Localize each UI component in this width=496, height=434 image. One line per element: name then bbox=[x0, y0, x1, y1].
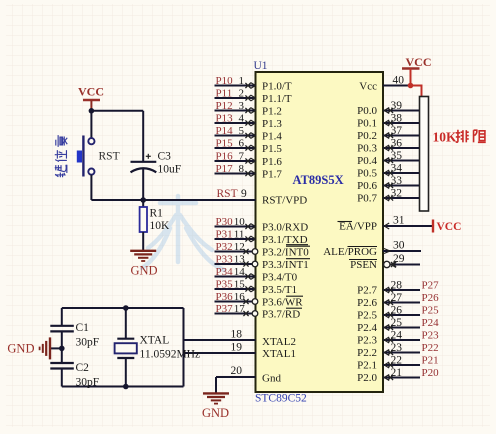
svg-text:P0.6: P0.6 bbox=[357, 180, 377, 192]
svg-text:30pF: 30pF bbox=[76, 337, 100, 349]
svg-text:P1.5: P1.5 bbox=[262, 143, 282, 155]
svg-text:P3.2/INT0: P3.2/INT0 bbox=[262, 247, 309, 259]
svg-text:XTAL: XTAL bbox=[140, 335, 170, 347]
svg-text:3: 3 bbox=[239, 100, 245, 112]
svg-text:P1.7: P1.7 bbox=[262, 169, 282, 181]
svg-text:11.0592MHz: 11.0592MHz bbox=[140, 349, 201, 361]
svg-text:P10: P10 bbox=[216, 75, 234, 87]
svg-text:P3.0/RXD: P3.0/RXD bbox=[262, 222, 308, 234]
svg-text:P36: P36 bbox=[216, 291, 234, 303]
svg-text:P3.7/RD: P3.7/RD bbox=[262, 309, 300, 321]
svg-text:C2: C2 bbox=[76, 362, 90, 374]
svg-text:30: 30 bbox=[393, 240, 405, 252]
svg-text:P0.0: P0.0 bbox=[357, 105, 377, 117]
svg-text:P2.2: P2.2 bbox=[357, 347, 377, 359]
svg-text:P2.6: P2.6 bbox=[357, 297, 377, 309]
svg-text:P1.4: P1.4 bbox=[262, 131, 282, 143]
svg-text:P0.2: P0.2 bbox=[357, 130, 377, 142]
svg-text:32: 32 bbox=[391, 188, 403, 200]
svg-text:P16: P16 bbox=[216, 151, 234, 163]
svg-text:P3.4/T0: P3.4/T0 bbox=[262, 272, 298, 284]
svg-text:25: 25 bbox=[391, 317, 403, 329]
svg-text:P2.7: P2.7 bbox=[357, 285, 377, 297]
svg-text:5: 5 bbox=[239, 125, 245, 137]
svg-text:22: 22 bbox=[391, 355, 403, 367]
svg-text:1: 1 bbox=[239, 75, 245, 87]
svg-text:40: 40 bbox=[393, 75, 405, 87]
svg-text:P22: P22 bbox=[422, 342, 439, 354]
svg-text:P13: P13 bbox=[216, 113, 234, 125]
svg-text:XTAL1: XTAL1 bbox=[262, 348, 296, 360]
svg-text:P2.0: P2.0 bbox=[357, 372, 377, 384]
svg-text:17: 17 bbox=[234, 303, 246, 315]
svg-text:P11: P11 bbox=[216, 88, 233, 100]
svg-text:P21: P21 bbox=[422, 355, 439, 367]
svg-text:31: 31 bbox=[393, 215, 405, 227]
svg-text:P0.5: P0.5 bbox=[357, 168, 377, 180]
svg-text:P1.6: P1.6 bbox=[262, 156, 282, 168]
svg-text:20: 20 bbox=[231, 365, 243, 377]
svg-text:P1.2: P1.2 bbox=[262, 106, 282, 118]
svg-text:P30: P30 bbox=[216, 216, 234, 228]
svg-text:33: 33 bbox=[391, 175, 403, 187]
svg-text:21: 21 bbox=[391, 367, 403, 379]
svg-text:P20: P20 bbox=[422, 367, 440, 379]
svg-text:VCC: VCC bbox=[78, 85, 104, 99]
svg-text:STC89C52: STC89C52 bbox=[255, 393, 307, 405]
svg-text:GND: GND bbox=[202, 406, 229, 420]
svg-text:10uF: 10uF bbox=[158, 164, 182, 176]
svg-text:7: 7 bbox=[239, 151, 245, 163]
svg-text:RST/VPD: RST/VPD bbox=[262, 195, 307, 207]
svg-text:RST: RST bbox=[99, 151, 120, 163]
svg-text:P14: P14 bbox=[216, 125, 234, 137]
svg-text:P3.3/INT1: P3.3/INT1 bbox=[262, 259, 309, 271]
svg-text:P0.7: P0.7 bbox=[357, 193, 377, 205]
svg-text:P32: P32 bbox=[216, 241, 233, 253]
svg-text:19: 19 bbox=[231, 342, 243, 354]
svg-text:P2.1: P2.1 bbox=[357, 360, 377, 372]
svg-text:C1: C1 bbox=[76, 322, 90, 334]
svg-text:PSEN: PSEN bbox=[350, 259, 377, 271]
svg-text:9: 9 bbox=[241, 188, 247, 200]
svg-text:VCC: VCC bbox=[406, 55, 432, 69]
svg-text:37: 37 bbox=[391, 125, 403, 137]
svg-text:P12: P12 bbox=[216, 100, 233, 112]
svg-text:P1.0/T: P1.0/T bbox=[262, 81, 292, 93]
svg-text:EA/VPP: EA/VPP bbox=[339, 221, 377, 233]
svg-text:P2.5: P2.5 bbox=[357, 310, 377, 322]
svg-text:24: 24 bbox=[391, 330, 403, 342]
svg-text:10K: 10K bbox=[150, 220, 171, 232]
svg-text:27: 27 bbox=[391, 292, 403, 304]
svg-text:RST: RST bbox=[217, 188, 238, 200]
svg-text:P24: P24 bbox=[422, 317, 440, 329]
svg-text:13: 13 bbox=[234, 254, 246, 266]
svg-text:28: 28 bbox=[391, 280, 403, 292]
svg-text:30pF: 30pF bbox=[76, 377, 100, 389]
svg-text:P35: P35 bbox=[216, 279, 234, 291]
svg-text:P2.3: P2.3 bbox=[357, 335, 377, 347]
svg-text:12: 12 bbox=[234, 241, 245, 253]
svg-text:P1.1/T: P1.1/T bbox=[262, 93, 292, 105]
svg-text:16: 16 bbox=[234, 291, 246, 303]
svg-text:P17: P17 bbox=[216, 163, 234, 175]
svg-text:10: 10 bbox=[234, 216, 246, 228]
svg-text:P0.4: P0.4 bbox=[357, 155, 377, 167]
svg-text:C3: C3 bbox=[158, 151, 172, 163]
svg-text:6: 6 bbox=[239, 138, 245, 150]
svg-text:P34: P34 bbox=[216, 266, 234, 278]
svg-text:11: 11 bbox=[234, 229, 245, 241]
svg-text:P3.6/WR: P3.6/WR bbox=[262, 297, 303, 309]
svg-text:XTAL2: XTAL2 bbox=[262, 336, 296, 348]
svg-text:23: 23 bbox=[391, 342, 403, 354]
svg-text:P2.4: P2.4 bbox=[357, 322, 377, 334]
svg-text:ALE/PROG: ALE/PROG bbox=[323, 246, 377, 258]
svg-text:Vcc: Vcc bbox=[359, 81, 377, 93]
svg-text:P0.3: P0.3 bbox=[357, 143, 377, 155]
svg-text:18: 18 bbox=[231, 329, 243, 341]
svg-text:10K: 10K bbox=[433, 130, 458, 145]
svg-text:P37: P37 bbox=[216, 303, 234, 315]
svg-text:P26: P26 bbox=[422, 292, 440, 304]
svg-text:36: 36 bbox=[391, 138, 403, 150]
svg-text:4: 4 bbox=[239, 113, 245, 125]
svg-text:8: 8 bbox=[239, 163, 245, 175]
svg-text:GND: GND bbox=[7, 342, 34, 356]
svg-text:P0.1: P0.1 bbox=[357, 118, 377, 130]
svg-text:VCC: VCC bbox=[437, 221, 462, 233]
svg-text:Gnd: Gnd bbox=[262, 373, 281, 385]
svg-text:P27: P27 bbox=[422, 280, 440, 292]
svg-text:P33: P33 bbox=[216, 254, 234, 266]
svg-text:14: 14 bbox=[234, 266, 246, 278]
svg-text:P23: P23 bbox=[422, 330, 440, 342]
svg-text:AT89S5X: AT89S5X bbox=[293, 173, 344, 187]
svg-text:39: 39 bbox=[391, 100, 403, 112]
svg-text:38: 38 bbox=[391, 113, 403, 125]
svg-text:2: 2 bbox=[239, 88, 245, 100]
svg-text:P3.5/T1: P3.5/T1 bbox=[262, 284, 297, 296]
svg-text:15: 15 bbox=[234, 279, 246, 291]
svg-text:P25: P25 bbox=[422, 305, 440, 317]
svg-text:P1.3: P1.3 bbox=[262, 118, 282, 130]
svg-text:P31: P31 bbox=[216, 229, 233, 241]
svg-text:P15: P15 bbox=[216, 138, 234, 150]
svg-text:35: 35 bbox=[391, 150, 403, 162]
svg-text:R1: R1 bbox=[150, 208, 164, 220]
svg-text:U1: U1 bbox=[254, 60, 268, 72]
svg-text:26: 26 bbox=[391, 305, 403, 317]
svg-text:34: 34 bbox=[391, 163, 403, 175]
svg-text:GND: GND bbox=[130, 264, 157, 278]
